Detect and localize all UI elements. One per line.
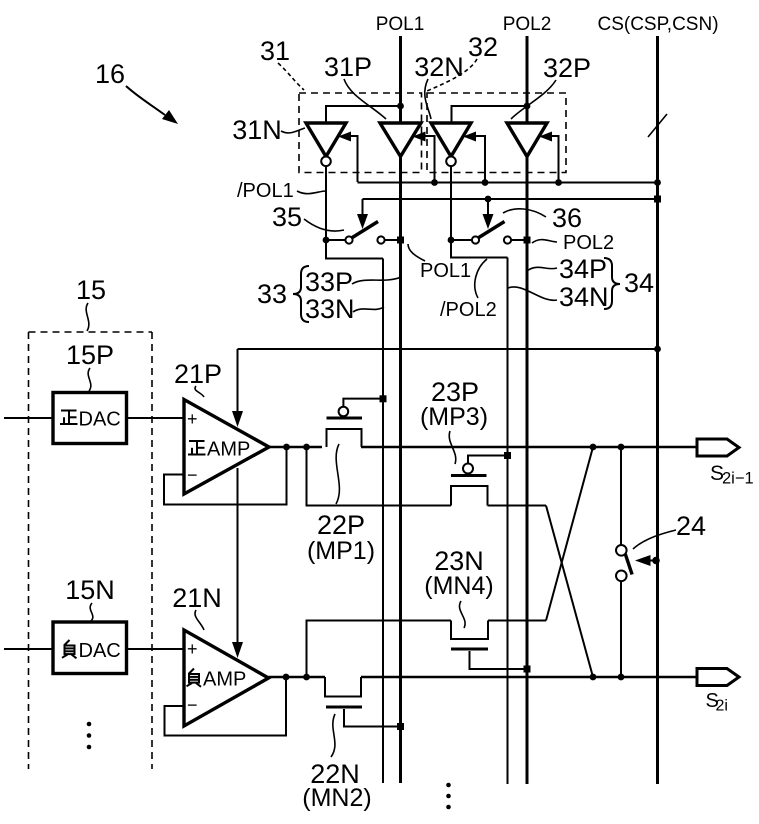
inverter 31N (triangle with bubble) xyxy=(306,123,346,157)
22N gate bar xyxy=(326,706,362,709)
leader for 33P xyxy=(352,277,401,284)
23N gate bar xyxy=(451,648,488,651)
bus slash on CS line xyxy=(648,114,667,137)
svg-text:+: + xyxy=(187,639,198,659)
wire POL2 vertical (net POL2) xyxy=(526,36,529,123)
leader for 23N xyxy=(459,601,465,628)
svg-text:34: 34 xyxy=(624,268,654,298)
DAC 15P box xyxy=(53,393,127,444)
leader for 21P xyxy=(195,386,204,397)
svg-text:31N: 31N xyxy=(232,115,282,145)
node on POL2 xyxy=(524,103,531,110)
wire CSN bus y=199 xyxy=(363,198,658,200)
svg-text:15P: 15P xyxy=(66,340,114,370)
DAC 15P text 正DAC xyxy=(60,411,78,425)
leader for 15 xyxy=(86,303,89,331)
svg-text:POL1: POL1 xyxy=(420,260,471,282)
leader for 34N xyxy=(508,287,557,300)
wire input tap for buffer 31N xyxy=(326,106,401,123)
buffer 32P (triangle) xyxy=(507,123,547,157)
transistor 22N (MN2) channel xyxy=(325,677,361,697)
wire branch from S2i up to 23N xyxy=(307,621,452,678)
transistor 23N (MN4) channel xyxy=(451,621,488,640)
leader for 15N xyxy=(90,603,93,621)
svg-text:AMP: AMP xyxy=(203,669,246,691)
svg-text:2i: 2i xyxy=(716,698,728,715)
svg-text:DAC: DAC xyxy=(79,640,121,662)
wire amp 21N output xyxy=(269,676,326,678)
wire DAC 15N to amp 21N xyxy=(127,648,185,650)
svg-text:(MN2): (MN2) xyxy=(302,784,371,812)
leader for 23P xyxy=(449,431,456,464)
23P gate bubble xyxy=(463,464,473,474)
leader arrow for 16 xyxy=(126,86,165,115)
wire S2i line xyxy=(361,676,697,678)
wire input tap for buffer 32N xyxy=(452,106,528,123)
svg-text:(MP1): (MP1) xyxy=(307,537,375,565)
22P gate bubble xyxy=(339,407,349,417)
svg-text:+: + xyxy=(187,409,198,429)
leader for 34P xyxy=(527,267,557,271)
buffer 31P (triangle) xyxy=(380,123,421,157)
svg-text:34N: 34N xyxy=(559,282,609,312)
svg-text:POL2: POL2 xyxy=(563,232,614,254)
svg-text:DAC: DAC xyxy=(79,409,121,431)
svg-text:24: 24 xyxy=(676,511,706,541)
wire DAC 15P to amp 21P xyxy=(127,417,185,419)
control arrow onto switch 35 xyxy=(362,199,364,216)
svg-text:32P: 32P xyxy=(543,53,591,83)
diagonal 23P to S2i xyxy=(546,506,593,678)
svg-text:POL1: POL1 xyxy=(376,14,425,35)
output port S2i-1 xyxy=(697,439,739,456)
inverter 32N (triangle with bubble) xyxy=(431,123,471,157)
arrow into amp 21P xyxy=(237,349,239,413)
svg-text:−: − xyxy=(187,465,198,485)
leader for 31P xyxy=(344,79,386,119)
wire branch down to 23P xyxy=(307,447,452,506)
wire amp 21P output xyxy=(269,446,322,448)
diagonal 23N to S2i-1 xyxy=(546,447,593,621)
svg-text:15: 15 xyxy=(76,275,106,305)
transistor 22P (MP1) channel xyxy=(327,429,362,447)
switch 36 xyxy=(448,237,455,244)
control arrow onto switch 36 xyxy=(487,199,489,216)
switch 35 xyxy=(323,237,330,244)
amp 21N text 負AMP xyxy=(187,669,202,687)
op-amp 21N xyxy=(184,630,269,726)
leader for /POL2 xyxy=(475,259,487,298)
leader for 35 xyxy=(304,219,344,231)
node on POL1 xyxy=(397,103,404,110)
transistor 23P (MP3) channel xyxy=(451,486,488,506)
switch 24 xyxy=(620,447,622,545)
enable arrow into 32N xyxy=(463,132,476,142)
leader for POL1 xyxy=(408,244,425,261)
feedback loop 21P xyxy=(164,447,287,505)
dashed box 32 xyxy=(427,93,566,173)
leader for 32P xyxy=(511,80,556,119)
wire pass-through to amp 21N xyxy=(237,468,239,644)
leader for 33N xyxy=(353,307,384,312)
leader for 21N xyxy=(195,610,204,630)
23P gate lead to /POL2 xyxy=(468,456,508,464)
wire 34N vertical (net /POL2) xyxy=(507,258,509,785)
23N gate lead to POL2 xyxy=(470,651,528,669)
svg-text:21P: 21P xyxy=(174,359,222,389)
svg-text:POL2: POL2 xyxy=(503,14,552,35)
23P gate bar xyxy=(451,474,487,477)
amp 21P text 正AMP xyxy=(188,441,206,455)
svg-text:CS(CSP,CSN): CS(CSP,CSN) xyxy=(597,14,718,35)
svg-text:33: 33 xyxy=(257,279,287,309)
leader for 31N xyxy=(281,128,305,133)
wire step from switch 35 to 33N line xyxy=(326,240,383,259)
wire CS control bus y=349 xyxy=(238,348,658,350)
ellipsis bottom middle xyxy=(446,783,451,788)
svg-text:(MP3): (MP3) xyxy=(420,403,488,431)
svg-text:36: 36 xyxy=(552,203,582,233)
svg-text:22P: 22P xyxy=(317,510,365,540)
wire 23N output to X cross xyxy=(488,620,546,622)
22N gate lead to POL1 xyxy=(344,709,401,727)
svg-text:32: 32 xyxy=(468,32,498,62)
leader for 22N xyxy=(331,714,335,757)
label 34 with brace xyxy=(604,258,620,309)
wire 33N vertical (net /POL1) xyxy=(382,259,384,784)
enable arrow into 32P xyxy=(539,132,552,142)
dashed box 31 xyxy=(299,93,422,173)
op-amp 21P xyxy=(184,400,269,495)
enable arrow into 31N xyxy=(338,132,351,142)
output port S2i xyxy=(697,669,739,686)
leader for POL2 xyxy=(532,240,557,243)
wire from 32N output down to switch 36 xyxy=(450,166,452,240)
svg-text:/POL2: /POL2 xyxy=(440,299,497,321)
svg-text:21N: 21N xyxy=(172,583,222,613)
DAC 15N text 負DAC xyxy=(62,640,77,658)
svg-text:2i−1: 2i−1 xyxy=(722,470,754,488)
wire input to DAC 15P xyxy=(4,417,53,419)
ellipsis below DAC xyxy=(87,722,92,727)
svg-text:34P: 34P xyxy=(559,254,607,284)
svg-text:15N: 15N xyxy=(65,575,115,605)
wire CSP bus y=182 xyxy=(358,182,658,184)
wire from 31N output down to switch 35 xyxy=(325,166,327,240)
leader for 15P xyxy=(88,368,91,391)
wire step from switch 36 to 34N line xyxy=(451,240,508,258)
svg-text:(MN4): (MN4) xyxy=(424,572,493,600)
svg-text:33P: 33P xyxy=(305,267,353,297)
wire S2i-1 line xyxy=(361,446,697,448)
wire POL1 vertical (net POL1) xyxy=(399,36,402,123)
svg-text:−: − xyxy=(187,695,198,715)
svg-text:31: 31 xyxy=(260,36,290,66)
22P gate lead to /POL1 xyxy=(343,399,383,407)
dashed box 15 xyxy=(29,331,153,333)
leader for 32N xyxy=(425,79,431,119)
enable arrow into 31P xyxy=(413,132,426,142)
control arrow onto switch 24 from CS xyxy=(635,555,651,566)
svg-text:16: 16 xyxy=(95,59,125,89)
svg-text:/POL1: /POL1 xyxy=(237,180,294,202)
22P gate bar xyxy=(327,417,363,420)
leader for 24 xyxy=(633,530,676,549)
svg-text:33N: 33N xyxy=(305,294,355,324)
svg-text:AMP: AMP xyxy=(207,439,250,461)
svg-text:35: 35 xyxy=(272,202,302,232)
svg-text:31P: 31P xyxy=(324,52,372,82)
dashed leader for 32 xyxy=(427,59,477,91)
wire CS vertical (net CS) xyxy=(656,36,659,784)
leader for /POL1 xyxy=(297,191,326,194)
wire 23P output to X cross xyxy=(488,505,547,507)
wire input to DAC 15N xyxy=(4,648,53,650)
leader for 36 xyxy=(503,209,546,217)
feedback loop 21N xyxy=(165,677,287,736)
leader for 22P xyxy=(336,444,339,504)
dashed leader for 31 xyxy=(278,63,304,90)
DAC 15N box xyxy=(53,622,127,674)
